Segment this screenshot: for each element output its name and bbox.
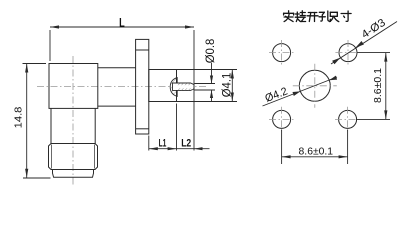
svg-text:Ø0.8: Ø0.8 (205, 39, 217, 64)
leader Ø4.2 (263, 77, 338, 106)
svg-text:L1: L1 (159, 137, 167, 149)
insulator bushing dome (hatched) (170, 78, 177, 97)
pin hatch marks (178, 83, 194, 90)
安 (284, 11, 294, 22)
vertical centerline of connector body (72, 56, 74, 186)
svg-text:L2: L2 (181, 137, 191, 149)
neck below block (50, 108, 52, 143)
flange plate (136, 39, 149, 134)
extension line boss face (176, 104, 178, 151)
crosshair top-right (335, 52, 360, 54)
svg-text:8.6±0.1: 8.6±0.1 (372, 68, 384, 103)
leader 4-Ø3 (331, 22, 397, 65)
hole circle top-right (339, 44, 357, 62)
dimension Ø4.1 extension lines (177, 69, 238, 71)
crosshair center (293, 85, 337, 87)
svg-text:8.6±0.1: 8.6±0.1 (299, 146, 334, 157)
flange mounting hole line top (136, 49, 149, 51)
extension line right for L / L2 (pin tip) (193, 30, 195, 151)
dimension L (50, 26, 194, 28)
孔 (319, 11, 330, 21)
arrowhead L left (50, 25, 59, 28)
connector corner block (49, 64, 98, 109)
horizontal barrel top edge (98, 67, 136, 69)
center pin (173, 83, 195, 90)
bottom tip (53, 170, 94, 178)
extension line flange face (148, 136, 150, 151)
knurled nut (49, 144, 98, 170)
开 (307, 13, 318, 22)
horizontal barrel bottom edge (98, 105, 136, 107)
insulator boss behind flange (149, 70, 177, 102)
dimension Ø0.8 leader/arrows (211, 63, 213, 84)
hole circle top-left (273, 44, 291, 62)
extension line left for L (49, 30, 51, 61)
nut knurl line left (51, 145, 53, 169)
white canvas (0, 0, 403, 191)
dimension Ø4.1 line (231, 70, 233, 102)
dimension L1 / L2 (149, 148, 210, 150)
arrowhead L right (185, 25, 194, 28)
dimension 8.6±0.1 bottom (281, 130, 283, 165)
extension line top for 14.8 (23, 63, 47, 65)
extension line bottom for 14.8 (23, 177, 51, 179)
crosshair bottom-right (335, 118, 360, 120)
svg-text:14.8: 14.8 (12, 106, 24, 128)
hole circle bottom-right (339, 110, 357, 128)
hole circle bottom-left (273, 110, 291, 128)
装 (295, 11, 305, 22)
寸 (341, 11, 351, 21)
center hole circle (299, 70, 330, 101)
crosshair bottom-left (269, 118, 294, 120)
尺 (330, 12, 339, 21)
dimension 14.8 (26, 64, 28, 178)
dimension 8.6±0.1 right (357, 52, 390, 54)
title 安装开孔尺寸 (drawn strokes) (284, 11, 351, 22)
svg-text:Ø4.1: Ø4.1 (222, 73, 234, 98)
flange mounting hole line bottom (136, 128, 149, 130)
nut knurl line right (94, 145, 96, 169)
dimension Ø0.8 extension lines (195, 83, 216, 85)
crosshair top-left (269, 52, 294, 54)
svg-text:L: L (119, 16, 125, 30)
horizontal centerline of pin axis (37, 86, 207, 88)
